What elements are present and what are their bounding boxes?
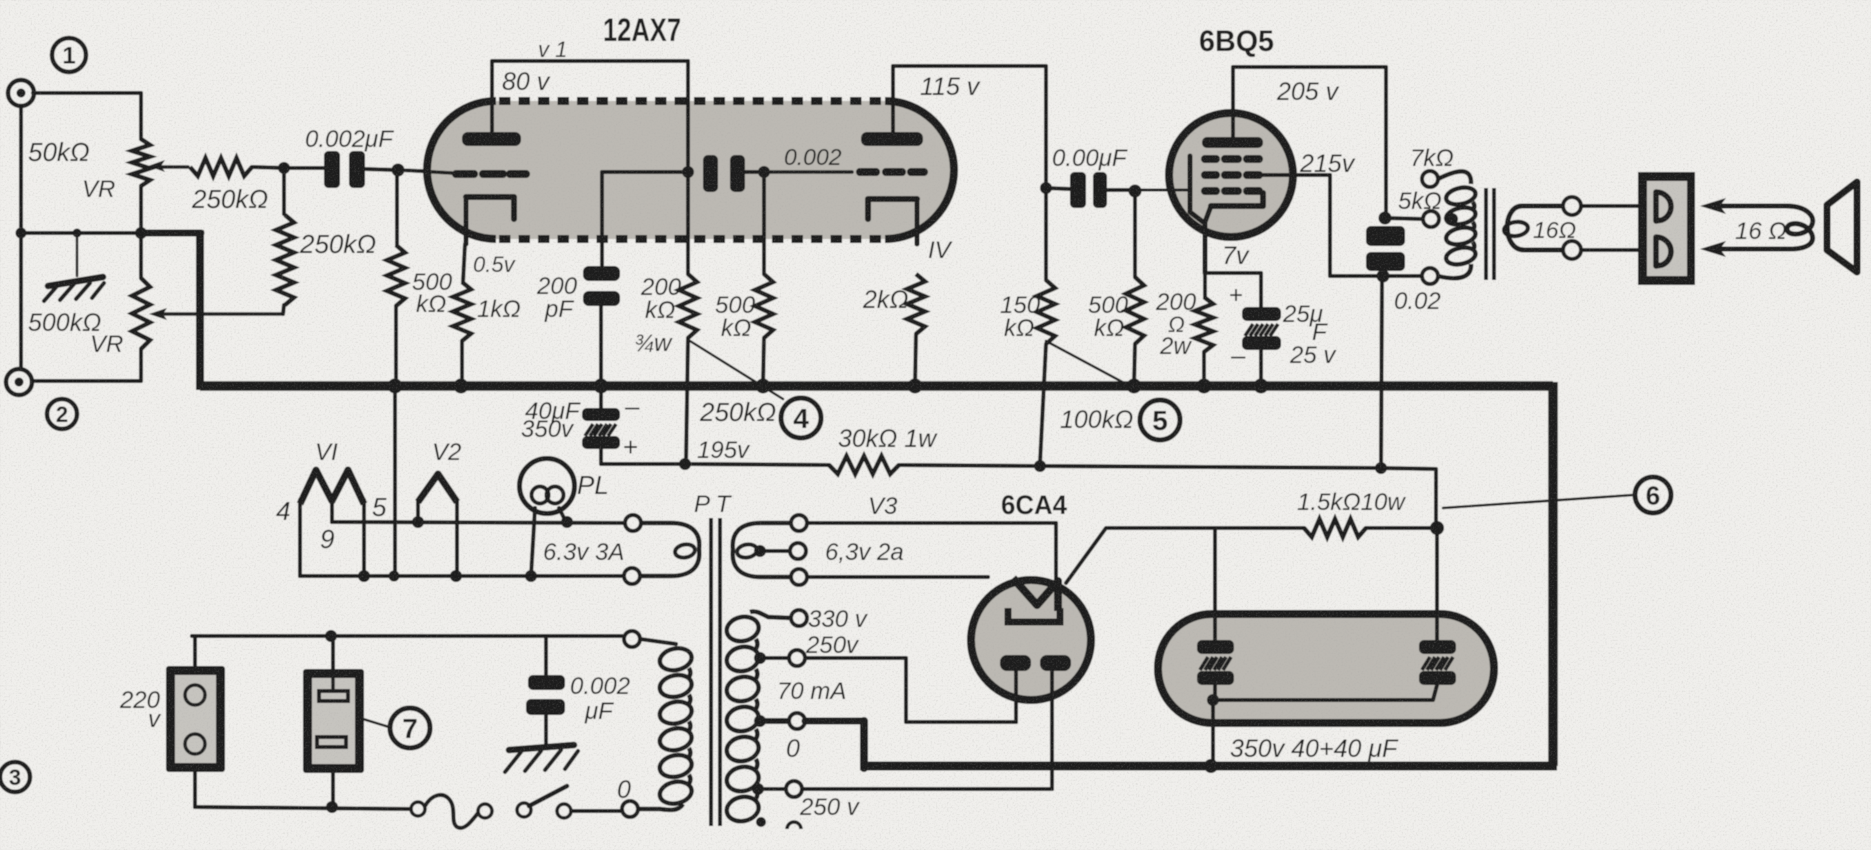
resistor 250k series [190, 158, 252, 176]
svg-text:V3: V3 [868, 493, 898, 520]
terminal 7k [1422, 171, 1438, 187]
svg-text:0.002μF: 0.002μF [305, 126, 394, 153]
tube V2 6BQ5 envelope [1169, 113, 1293, 237]
wire grid V1a entry (over glass) [398, 170, 452, 173]
junction 200pF-bus [594, 379, 609, 394]
terminal V3 bottom [791, 569, 807, 585]
PT primary 220v top terminal [624, 631, 640, 647]
plate V1a lead + 80v bracket [492, 61, 688, 132]
PT HV winding [724, 614, 760, 644]
svg-text:12AX7: 12AX7 [603, 12, 681, 48]
wire 195v to 30k [685, 464, 829, 465]
wire grid 6BQ5 entry (over glass) [1135, 189, 1188, 192]
junction internal cap left [682, 166, 694, 178]
capacitor 0.002uF line [528, 675, 565, 690]
svg-text:v: v [148, 706, 162, 733]
junction 500k 6BQ5-bus [1127, 379, 1142, 394]
svg-text:pF: pF [544, 296, 574, 323]
PT primary coil [640, 639, 676, 644]
wire 500k node down to heater bus [393, 389, 397, 576]
svg-text:6: 6 [1646, 480, 1660, 510]
svg-text:kΩ: kΩ [1094, 315, 1124, 342]
wire 250v lower to 6CA4 [802, 787, 1052, 791]
junction 195v node [679, 458, 691, 470]
junction 500k-bus [388, 379, 403, 394]
svg-text:–: – [625, 391, 640, 421]
ground G1 stem [76, 238, 79, 276]
wire 40uF to 195v line [601, 449, 683, 464]
OT secondary winding [1507, 206, 1572, 250]
resistor 150k (to node D) [1037, 280, 1055, 344]
plate V1b lead + 115v bracket [893, 66, 1046, 184]
PT 6.3v winding [641, 523, 699, 576]
svg-text:250kΩ: 250kΩ [191, 184, 268, 214]
svg-text:16 Ω: 16 Ω [1735, 218, 1787, 245]
svg-text:330 v: 330 v [808, 606, 869, 633]
resistor 200 ohm cathode [1195, 297, 1213, 352]
svg-text:9: 9 [320, 524, 334, 554]
HV tap 250v lower [752, 783, 764, 795]
svg-text:kΩ: kΩ [1004, 315, 1034, 342]
terminal 250v upper [789, 650, 805, 666]
svg-text:250kΩ: 250kΩ [699, 397, 776, 427]
wire node D to node E [1040, 466, 1379, 468]
wire 30k to node D [899, 465, 1038, 466]
HV winding bottom dot [756, 817, 766, 827]
wiper arrow 500k pot [160, 312, 283, 316]
mains top wire [192, 634, 622, 638]
svg-text:2: 2 [56, 402, 68, 427]
wire V3 bottom to 6CA4 [807, 575, 988, 579]
capacitor 0.00uF coupling [1070, 172, 1086, 208]
wire grid V1b node down (to 500k) [762, 172, 766, 274]
pointer line note 7 [363, 719, 389, 727]
heater top wire [332, 522, 633, 523]
capacitor 40uF/350v wire [599, 389, 603, 410]
label 5 (circled) [1140, 400, 1180, 440]
wire node B to 250k grid [282, 168, 286, 214]
wire 500k pot bottom to J2 [32, 349, 141, 381]
wire 50k pot bottom to bus node [139, 186, 143, 233]
plate V1a bar [462, 132, 521, 146]
arrow to connector top [1700, 198, 1726, 214]
capacitor 0.00uF coupling wire [1046, 188, 1070, 189]
svg-text:0: 0 [786, 735, 800, 763]
wire V3 to 6CA4 top [807, 523, 1056, 579]
svg-text:2w: 2w [1159, 333, 1192, 360]
terminal 5k [1423, 211, 1439, 227]
svg-text:0.5v: 0.5v [473, 252, 517, 277]
wire J1-J2 left vertical [19, 106, 23, 369]
wire plate tap to 5k terminal [1385, 218, 1422, 219]
wire switch to PT [571, 809, 622, 813]
terminal secondary bottom [1563, 241, 1581, 259]
junction node C (grid V1a) [392, 164, 405, 177]
capacitor 25uF [1242, 307, 1281, 321]
svg-text:kΩ: kΩ [721, 315, 751, 342]
heater V1 symbol [300, 470, 364, 504]
pointer line note 6 [1443, 495, 1633, 508]
tube V3 6CA4 envelope [971, 580, 1091, 700]
svg-text:3: 3 [9, 765, 21, 790]
heater V2 right leg [455, 500, 459, 576]
svg-text:6.3v 3A: 6.3v 3A [543, 539, 624, 566]
terminal OT bottom [1422, 268, 1438, 284]
heater V1 center leg [330, 498, 334, 522]
junction V1 right leg [358, 570, 370, 582]
svg-text:4: 4 [793, 403, 809, 434]
cap can common wire [1213, 685, 1217, 700]
wire node C into tube [398, 170, 452, 172]
junction V2 left leg [412, 516, 424, 528]
terminal 250v lower [786, 781, 802, 797]
svg-text:V2: V2 [432, 439, 461, 466]
junction node E [1375, 462, 1387, 474]
svg-text:kΩ: kΩ [645, 297, 675, 324]
junction 1k-bus [454, 379, 469, 394]
PT core [709, 518, 713, 826]
resistor 30k 1w [829, 456, 899, 474]
svg-text:205 v: 205 v [1276, 78, 1340, 106]
HV tap 250v upper [754, 652, 766, 664]
fuse holder leads [331, 636, 335, 669]
junction PL left [525, 570, 537, 582]
grid V1a dashes [456, 170, 526, 178]
junction dot A3 (pot) [135, 227, 147, 239]
connector contact upper [1656, 192, 1671, 221]
svg-text:¾w: ¾w [634, 330, 673, 357]
svg-text:0.02: 0.02 [1394, 288, 1441, 315]
junction B+ node [1430, 521, 1444, 535]
6CA4 plate left lead [1014, 671, 1018, 722]
svg-text:0.002: 0.002 [784, 144, 842, 170]
junction 500k-heater [389, 571, 400, 582]
connector contact lower [1656, 237, 1671, 266]
node A wire (y233) [21, 231, 146, 235]
terminal secondary top [1563, 197, 1581, 215]
resistor 500k grid V1a [387, 245, 405, 306]
svg-text:70 mA: 70 mA [777, 678, 846, 705]
wire bottom tap to terminal [1383, 274, 1421, 278]
wire coupling cap to grid node [1107, 188, 1133, 192]
pilot lamp PL [520, 459, 575, 514]
junction dot A1 [16, 228, 27, 239]
junction OT plate tap [1379, 212, 1392, 225]
capacitor 40uF/350v [582, 408, 620, 421]
svg-text:25 v: 25 v [1289, 342, 1337, 369]
heater V2 left leg [416, 500, 420, 522]
svg-text:5kΩ: 5kΩ [1398, 188, 1442, 215]
label 2 (circled) [47, 399, 77, 429]
capacitor 40uF-b [1419, 640, 1456, 654]
junction node B [278, 162, 290, 174]
svg-text:+: + [623, 432, 638, 462]
label 6 (circled) [1635, 477, 1671, 513]
terminal 330v [791, 610, 807, 626]
junction OT bottom tap [1377, 270, 1390, 283]
6CA4 cathode V [1013, 578, 1058, 611]
svg-text:6BQ5: 6BQ5 [1199, 25, 1274, 58]
label 1 (circled) [52, 38, 86, 72]
speaker [1827, 182, 1857, 272]
resistor 1.5k 10w [1304, 519, 1366, 537]
svg-text:μF: μF [584, 698, 614, 725]
terminal J2 (input return) [6, 369, 32, 395]
heater V2 symbol [418, 474, 457, 502]
svg-text:1kΩ: 1kΩ [477, 296, 521, 323]
svg-text:0.00μF: 0.00μF [1052, 145, 1128, 172]
mains bottom wire [195, 807, 412, 809]
svg-text:215v: 215v [1299, 150, 1356, 178]
cathode network bracket [1205, 273, 1261, 308]
PL left lead [531, 508, 535, 576]
node A thick stub [141, 230, 201, 237]
grid rows 6BQ5 [1205, 155, 1259, 163]
capacitor 0.002 internal wire from 200pF [602, 172, 685, 268]
resistor 500k grid V1b [755, 274, 773, 338]
terminal V3 top [791, 515, 807, 531]
svg-text:16Ω: 16Ω [1533, 217, 1576, 243]
6CA4 plate right [1040, 655, 1071, 671]
svg-text:VR: VR [82, 176, 115, 203]
junction dot A2 (ground stem) [73, 229, 82, 238]
cathode V1b [868, 199, 917, 219]
wire internal cap to grid V1b [745, 170, 764, 174]
wire 250k to node B [252, 167, 284, 168]
svg-text:5: 5 [372, 492, 387, 522]
grid V1b dashes [860, 168, 924, 176]
pointer line note 5 [1046, 341, 1128, 385]
terminal heater top [625, 515, 641, 531]
HV tap 70mA [754, 715, 766, 727]
capacitor 0.02 across OT [1366, 226, 1405, 246]
svg-text:80 v: 80 v [502, 68, 551, 96]
ground G1 symbol [48, 277, 103, 286]
svg-text:250kΩ: 250kΩ [299, 229, 376, 259]
grid rail 6BQ5 [1190, 156, 1203, 222]
plug 220v [166, 666, 225, 772]
junction cap can-bottom bus [1204, 759, 1218, 773]
thick wire 70mA to bottom bus [805, 718, 864, 725]
resistor 500k grid 6BQ5 [1126, 277, 1144, 344]
ground G2 symbol [509, 745, 574, 750]
junction 115v node [1040, 182, 1052, 194]
svg-text:+: + [1229, 282, 1243, 309]
junction grid V1b node [758, 166, 770, 178]
wire plate bracket down through tube (to 200k) [686, 61, 690, 274]
svg-text:30kΩ 1w: 30kΩ 1w [838, 425, 938, 453]
cap can left lead [1213, 528, 1217, 641]
PT V3 winding [733, 523, 791, 577]
junction 2k-bus [908, 379, 923, 394]
6CA4 cathode bracket [1008, 608, 1060, 622]
junction 25uF-bus [1254, 379, 1269, 394]
svg-text:250 v: 250 v [799, 794, 861, 821]
speaker cable [1712, 206, 1813, 249]
svg-text:250v: 250v [805, 632, 860, 659]
svg-text:195v: 195v [697, 437, 751, 464]
svg-text:0.002: 0.002 [570, 673, 630, 700]
pointer line note 4 [690, 341, 783, 399]
6CA4 plate right lead [1050, 671, 1054, 789]
wire J1 to 50k pot top [33, 93, 141, 139]
svg-text:4: 4 [276, 496, 290, 526]
OT core [1484, 188, 1488, 280]
svg-text:350v 40+40 μF: 350v 40+40 μF [1230, 735, 1399, 763]
ground bus right riser [1548, 382, 1558, 766]
wire 250v upper to 6CA4 [805, 658, 1016, 722]
wire 6CA4 anode takeoff [1066, 528, 1304, 583]
svg-text:VI: VI [315, 439, 338, 466]
tube V1 12AX7 envelope [425, 101, 956, 239]
cap can ground lead [1211, 700, 1215, 766]
heater V1 left leg [298, 500, 302, 576]
resistor 250k grid [276, 215, 294, 305]
terminal 70mA [789, 713, 805, 729]
svg-text:PL: PL [577, 470, 609, 500]
terminal V3 center [790, 543, 806, 559]
6CA4 plate left [1000, 655, 1031, 671]
junction PL right [561, 516, 573, 528]
label 4 (circled) [781, 398, 821, 438]
resistor 1k cathode [453, 282, 471, 341]
plate V1b bar [861, 132, 923, 146]
junction V2 right leg [450, 570, 462, 582]
capacitor 0.002uF input wire [284, 166, 324, 170]
svg-text:7kΩ: 7kΩ [1410, 145, 1454, 172]
plug 220v leads [193, 636, 197, 666]
potentiometer 50k VR element [132, 139, 150, 186]
svg-text:6CA4: 6CA4 [1001, 490, 1067, 520]
wire node E corner to B+ node [1381, 468, 1436, 528]
svg-text:350v: 350v [521, 416, 575, 443]
svg-text:VR: VR [90, 331, 123, 358]
wiper arrow 50k pot [158, 165, 188, 169]
arrow to connector bottom [1700, 241, 1726, 257]
svg-text:100kΩ: 100kΩ [1060, 406, 1133, 434]
svg-text:50kΩ: 50kΩ [28, 137, 90, 167]
junction fuse top [325, 630, 337, 642]
cap can right lead [1435, 528, 1439, 641]
svg-text:5: 5 [1152, 405, 1168, 436]
capacitor 0.002uF input [324, 151, 340, 188]
wire 500k pot top [139, 233, 143, 278]
ground bus left riser [196, 230, 204, 390]
wire 1.5k to B+ node [1366, 526, 1434, 530]
heater V1 right leg [362, 500, 366, 576]
fuse holder [303, 669, 364, 773]
ground bus bottom [860, 762, 1557, 771]
svg-text:7: 7 [402, 713, 418, 744]
fuse F1 [411, 802, 425, 816]
svg-text:6,3v 2a: 6,3v 2a [825, 539, 904, 566]
wire grid node into 6BQ5 [1135, 189, 1188, 192]
svg-text:1: 1 [62, 43, 75, 70]
PT primary 220v bottom terminal [622, 801, 638, 817]
terminal heater bottom [624, 568, 640, 584]
svg-text:115 v: 115 v [920, 73, 981, 101]
junction 500k V1b-bus [756, 379, 771, 394]
capacitor 0.002 internal [703, 155, 718, 192]
wire secondary to connector [1581, 204, 1638, 208]
svg-text:IV: IV [928, 237, 953, 264]
capacitor can 40+40uF outline [1158, 614, 1494, 723]
svg-text:1.5kΩ10w: 1.5kΩ10w [1297, 489, 1406, 516]
potentiometer 500k VR element [132, 278, 150, 349]
cathode 6BQ5 [1211, 193, 1263, 206]
heater bottom wire [300, 574, 632, 578]
switch S1 [517, 803, 531, 817]
svg-text:7v: 7v [1222, 242, 1250, 270]
ground bus horizontal [200, 381, 1553, 391]
svg-text:kΩ: kΩ [416, 291, 446, 318]
capacitor 200pF [583, 266, 620, 281]
cathode V1a [466, 197, 514, 219]
junction 5k tap on winding [1446, 213, 1458, 225]
label 3 (circled) [0, 762, 30, 792]
capacitor 40uF-a [1197, 640, 1234, 654]
junction node D [1034, 460, 1046, 472]
label 7 (circled) [390, 708, 430, 748]
resistor 200k plate load [679, 274, 697, 338]
svg-text:0: 0 [617, 776, 631, 804]
OT primary winding [1438, 171, 1471, 184]
svg-text:–: – [1231, 340, 1246, 370]
junction 6BQ5 grid node [1129, 185, 1142, 198]
junction 200ohm-bus [1197, 379, 1212, 394]
junction fuse bottom [326, 801, 338, 813]
wire cap to grid node C [365, 169, 397, 170]
plate 6BQ5 bar [1202, 137, 1263, 148]
screen lead 215v [1262, 175, 1381, 276]
wire wiper to 250k bottom [283, 305, 284, 314]
svg-text:2kΩ: 2kΩ [862, 286, 908, 314]
terminal J1 (input hot) [8, 80, 34, 106]
svg-text:P T: P T [694, 491, 733, 518]
svg-text:v 1: v 1 [538, 37, 567, 62]
wire OT bottom tap down to node E [1381, 276, 1382, 468]
V3 center tap [754, 545, 766, 557]
connector block [1638, 172, 1695, 285]
resistor 2k cathode V1b [907, 274, 925, 334]
plate 6BQ5 lead + 205v wire [1233, 67, 1386, 214]
PL right lead [559, 508, 566, 522]
